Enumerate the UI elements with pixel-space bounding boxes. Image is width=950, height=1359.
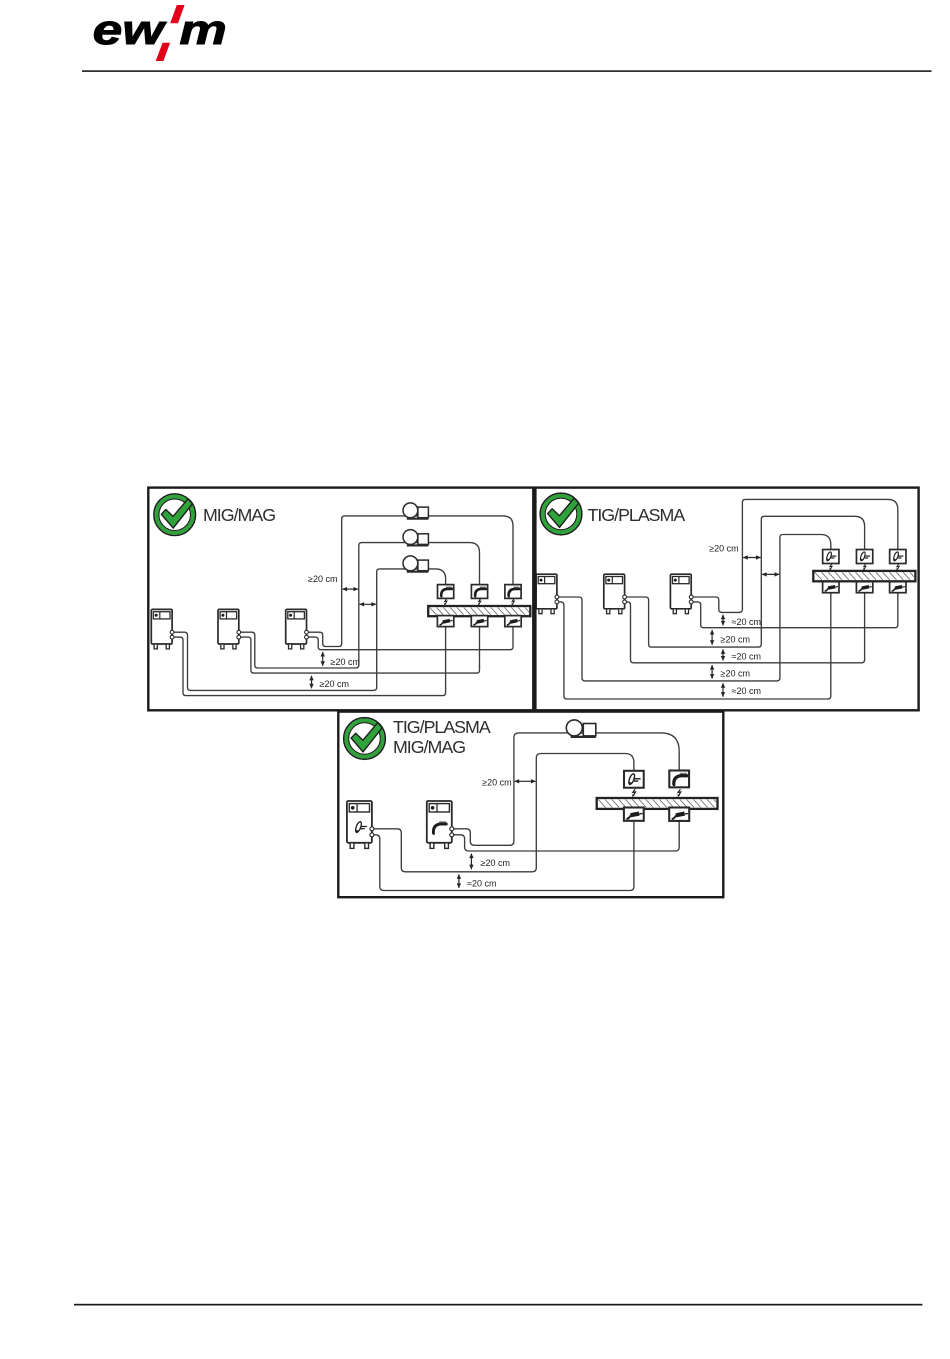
svg-text:≥20 cm: ≥20 cm <box>481 858 510 868</box>
svg-text:≥20 cm: ≥20 cm <box>482 778 511 788</box>
svg-text:≈20 cm: ≈20 cm <box>732 686 761 696</box>
svg-text:≈20 cm: ≈20 cm <box>732 617 761 627</box>
svg-text:≈20 cm: ≈20 cm <box>467 879 496 889</box>
svg-text:≈20 cm: ≈20 cm <box>732 652 761 662</box>
svg-text:m: m <box>179 7 226 53</box>
svg-text:MIG/MAG: MIG/MAG <box>203 505 275 525</box>
svg-text:≥20 cm: ≥20 cm <box>721 669 750 679</box>
svg-text:ew: ew <box>93 7 167 53</box>
svg-text:MIG/MAG: MIG/MAG <box>393 737 465 757</box>
svg-text:≥20 cm: ≥20 cm <box>709 544 738 554</box>
svg-text:TIG/PLASMA: TIG/PLASMA <box>588 505 686 525</box>
svg-text:≥20 cm: ≥20 cm <box>331 657 360 667</box>
svg-text:≥20 cm: ≥20 cm <box>320 679 349 689</box>
svg-text:≥20 cm: ≥20 cm <box>308 574 337 584</box>
svg-text:TIG/PLASMA: TIG/PLASMA <box>393 717 491 737</box>
svg-text:≥20 cm: ≥20 cm <box>721 635 750 645</box>
